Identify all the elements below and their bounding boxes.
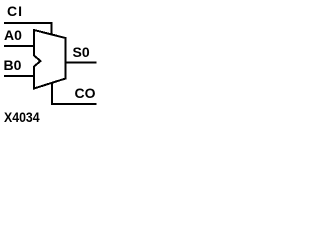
wire A0	[4, 45, 34, 47]
figure label X4034	[4, 110, 40, 124]
pin label B0	[4, 58, 22, 72]
wire CO	[52, 82, 97, 104]
pin label CI	[7, 4, 23, 18]
pin label A0	[4, 28, 22, 42]
wire S0	[65, 62, 97, 64]
pin label S0	[73, 45, 90, 59]
wire B0	[4, 75, 34, 77]
adder symbol X4034	[0, 0, 100, 127]
pin label CO	[75, 86, 96, 100]
adder body (1-bit full adder ADD1)	[34, 30, 66, 89]
wire CI	[4, 23, 52, 36]
